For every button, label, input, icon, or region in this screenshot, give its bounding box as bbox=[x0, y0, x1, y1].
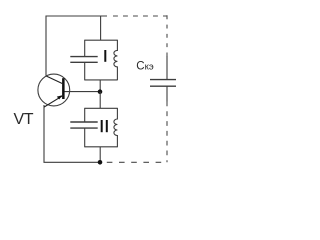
wire: bottom rail solid, emitter net bbox=[44, 105, 100, 162]
wire: node A stub into tank II bbox=[99, 92, 101, 109]
wire: tank I bottom stub to node A bbox=[99, 80, 101, 92]
transistor VT (PNP) bbox=[38, 74, 70, 107]
capacitor Cкэ bbox=[150, 80, 176, 87]
inductor L2 (right branch of tank II) bbox=[114, 108, 118, 147]
wire: stub from top rail into tank I bbox=[100, 16, 102, 40]
inductor L1 (right branch of tank I) bbox=[114, 40, 118, 81]
wire: base lead to node A bbox=[65, 91, 101, 93]
label I bbox=[104, 50, 106, 62]
tank circuit I: frame rails bbox=[85, 40, 118, 80]
wire: Cкэ bottom lead bbox=[166, 86, 168, 101]
node B junction dot bbox=[98, 160, 103, 165]
wire: right rail dashed lower bbox=[166, 102, 168, 163]
wire: top rail dashed to Cкэ bbox=[113, 15, 168, 17]
svg-text:Cкэ: Cкэ bbox=[136, 60, 154, 72]
svg-text:VT: VT bbox=[14, 111, 34, 128]
wire: tank II bottom stub to node B bbox=[99, 147, 101, 163]
wire: right rail dashed upper bbox=[166, 15, 168, 57]
node A junction dot bbox=[98, 89, 103, 94]
label II bbox=[101, 120, 108, 132]
wire: top rail solid, collector net bbox=[46, 16, 107, 76]
wire: bottom rail dashed bbox=[107, 161, 167, 163]
wire: Cкэ top lead bbox=[166, 56, 168, 80]
capacitor C1 (left branch of tank I) bbox=[70, 40, 97, 81]
capacitor C2 (left branch of tank II) bbox=[70, 108, 97, 147]
tank circuit II: frame rails bbox=[85, 108, 118, 147]
